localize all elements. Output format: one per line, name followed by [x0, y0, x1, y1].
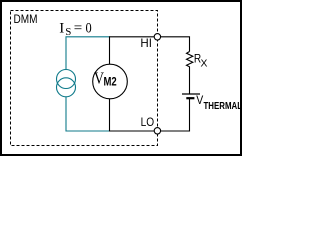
- battery VTHERMAL: [182, 94, 200, 98]
- svg-text:M2: M2: [104, 74, 117, 88]
- svg-text:S: S: [65, 26, 71, 38]
- svg-text:THERMAL: THERMAL: [204, 100, 243, 112]
- label IS = 0: [59, 20, 91, 38]
- voltmeter VM2: [93, 64, 128, 99]
- svg-text:I: I: [59, 20, 64, 36]
- wire: top black segment from voltmeter node to HI terminal: [110, 37, 155, 65]
- DMM enclosure (dashed boundary): [11, 11, 158, 146]
- current source IS (two overlapping teal circles): [57, 70, 76, 97]
- svg-text:X: X: [201, 59, 208, 70]
- wire: bottom teal segment from current source to voltmeter node: [66, 97, 110, 131]
- label RX: [194, 52, 208, 70]
- svg-text:LO: LO: [141, 115, 155, 129]
- svg-text:DMM: DMM: [14, 12, 38, 26]
- label VM2: [94, 69, 117, 89]
- svg-text:=: =: [74, 20, 82, 36]
- terminal LO: [154, 128, 160, 134]
- wire: top teal segment from current source to voltmeter node: [66, 37, 110, 70]
- svg-text:0: 0: [86, 20, 92, 36]
- wire: voltmeter bottom lead to LO node: [110, 99, 155, 131]
- terminal HI: [154, 34, 160, 40]
- resistor RX (zigzag): [187, 52, 193, 95]
- wire: HI terminal to resistor branch: [161, 37, 190, 52]
- wire: LO terminal to battery branch: [161, 99, 190, 132]
- svg-text:HI: HI: [140, 36, 152, 50]
- label VTHERMAL: [196, 93, 242, 112]
